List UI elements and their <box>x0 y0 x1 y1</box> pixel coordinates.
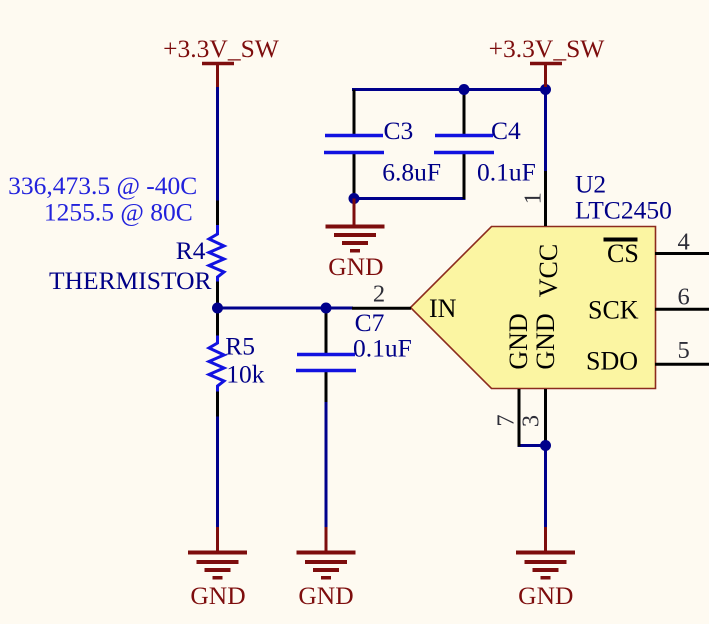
svg-text:R5: R5 <box>225 331 255 360</box>
svg-text:GND: GND <box>518 581 573 610</box>
svg-text:7: 7 <box>493 414 520 426</box>
svg-text:4: 4 <box>678 228 690 255</box>
svg-text:336,473.5 @ -40C: 336,473.5 @ -40C <box>8 171 197 200</box>
svg-text:U2: U2 <box>575 169 606 198</box>
svg-text:1255.5 @ 80C: 1255.5 @ 80C <box>44 197 193 226</box>
svg-text:6: 6 <box>678 283 690 310</box>
svg-text:0.1uF: 0.1uF <box>353 333 412 362</box>
svg-text:6.8uF: 6.8uF <box>382 158 441 187</box>
svg-text:GND: GND <box>190 581 245 610</box>
svg-text:SDO: SDO <box>586 347 638 376</box>
svg-text:+3.3V_SW: +3.3V_SW <box>163 34 280 63</box>
svg-text:10k: 10k <box>226 360 264 389</box>
svg-text:0.1uF: 0.1uF <box>477 157 536 186</box>
svg-text:3: 3 <box>518 415 545 427</box>
svg-text:GND: GND <box>504 313 533 369</box>
svg-text:R4: R4 <box>176 236 206 265</box>
svg-text:GND: GND <box>298 581 353 610</box>
svg-text:GND: GND <box>328 252 383 281</box>
svg-text:C4: C4 <box>491 116 521 145</box>
svg-text:CS: CS <box>607 239 639 268</box>
svg-text:LTC2450: LTC2450 <box>575 196 672 225</box>
svg-text:C3: C3 <box>384 116 414 145</box>
svg-text:THERMISTOR: THERMISTOR <box>49 266 211 295</box>
svg-text:5: 5 <box>678 337 690 364</box>
svg-text:GND: GND <box>531 313 560 369</box>
svg-text:+3.3V_SW: +3.3V_SW <box>489 34 606 63</box>
svg-text:SCK: SCK <box>588 296 639 325</box>
svg-text:1: 1 <box>520 192 547 204</box>
svg-text:2: 2 <box>373 280 385 307</box>
svg-text:VCC: VCC <box>534 244 563 297</box>
svg-text:IN: IN <box>429 294 457 323</box>
